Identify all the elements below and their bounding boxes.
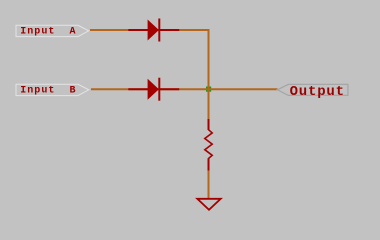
port flag Output	[277, 84, 348, 100]
ground	[197, 199, 220, 210]
svg-text:Output: Output	[290, 84, 345, 100]
wire: vertical from resistor down to ground	[208, 169, 210, 200]
diode D2 (Input B)	[128, 78, 179, 101]
wire: vertical from corner A down to resistor	[208, 29, 210, 120]
diode D1 (Input A)	[128, 19, 179, 42]
wire: Input A horizontal	[90, 29, 210, 31]
svg-text:Input A: Input A	[20, 26, 76, 37]
port flag Input B	[16, 84, 89, 96]
wire: Input B horizontal to junction and on to Output	[91, 88, 278, 90]
svg-text:Input B: Input B	[20, 86, 76, 97]
node junction (green)	[206, 87, 211, 92]
port flag Input A	[16, 25, 89, 37]
resistor R1	[205, 119, 212, 171]
